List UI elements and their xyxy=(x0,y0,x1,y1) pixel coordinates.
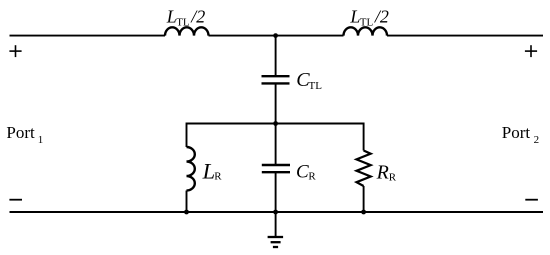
inductor L2 (right L_TL/2) xyxy=(344,27,388,35)
label Port 2 xyxy=(502,123,539,146)
ground xyxy=(268,237,284,247)
wire: parallel-network top bar xyxy=(187,123,364,125)
capacitor C_TL xyxy=(262,76,290,83)
node: junction of bottom rail and L_R branch xyxy=(184,210,189,215)
svg-text:Port: Port xyxy=(502,123,531,142)
svg-text:1: 1 xyxy=(38,134,44,146)
svg-text:/2: /2 xyxy=(374,6,389,26)
svg-text:Port: Port xyxy=(6,123,35,142)
node: junction of bottom rail and R_R branch xyxy=(361,210,366,215)
svg-text:TL: TL xyxy=(360,17,374,29)
label L_TL/2 (left) xyxy=(166,6,206,28)
svg-text:R: R xyxy=(214,170,222,182)
svg-text:L: L xyxy=(166,6,177,26)
svg-text:C: C xyxy=(296,161,309,182)
svg-text:R: R xyxy=(389,171,397,183)
terminal &#8722; (Port 2) xyxy=(525,199,538,201)
node: junction of top rail and shunt branch xyxy=(273,33,278,38)
wire: L_R branch upper lead xyxy=(186,123,188,148)
svg-text:R: R xyxy=(308,171,316,183)
svg-text:2: 2 xyxy=(534,134,540,146)
terminal + (Port 2) xyxy=(525,45,537,57)
label Port 1 xyxy=(6,123,43,146)
wire: C_R branch upper lead xyxy=(275,124,277,166)
wire: C_TL to parallel-network top bar xyxy=(275,83,277,123)
wire: R_R branch upper lead xyxy=(363,123,365,151)
wire: C_R branch lower lead xyxy=(275,172,277,212)
label C_R xyxy=(296,161,316,182)
wire: ground stub xyxy=(275,212,277,237)
svg-text:TL: TL xyxy=(309,80,323,92)
wire: bottom rail xyxy=(10,211,544,213)
label L_R xyxy=(202,158,223,183)
node: junction of bottom rail and C_R branch / ground xyxy=(273,210,278,215)
resistor R_R xyxy=(357,151,371,187)
svg-text:R: R xyxy=(376,162,389,184)
label R_R xyxy=(376,162,397,184)
inductor L_R xyxy=(187,147,195,191)
label C_TL xyxy=(296,69,322,92)
wire: top rail right segment xyxy=(387,35,543,37)
wire: L_R branch lower lead xyxy=(186,191,188,213)
wire: R_R branch lower lead xyxy=(363,186,365,212)
capacitor C_R xyxy=(262,165,290,172)
svg-text:L: L xyxy=(349,6,360,26)
node: junction on parallel-network top bar xyxy=(273,121,278,126)
wire: top rail left segment xyxy=(10,35,166,37)
wire: shunt branch, top rail to C_TL xyxy=(275,36,277,77)
label L_TL/2 (right) xyxy=(349,6,389,28)
svg-text:L: L xyxy=(202,158,216,183)
svg-text:/2: /2 xyxy=(190,6,205,26)
inductor L1 (left L_TL/2) xyxy=(165,27,209,35)
wire: top rail middle segment xyxy=(209,35,344,37)
svg-text:TL: TL xyxy=(176,17,190,29)
terminal + (Port 1) xyxy=(9,45,21,57)
terminal &#8722; (Port 1) xyxy=(9,199,22,201)
